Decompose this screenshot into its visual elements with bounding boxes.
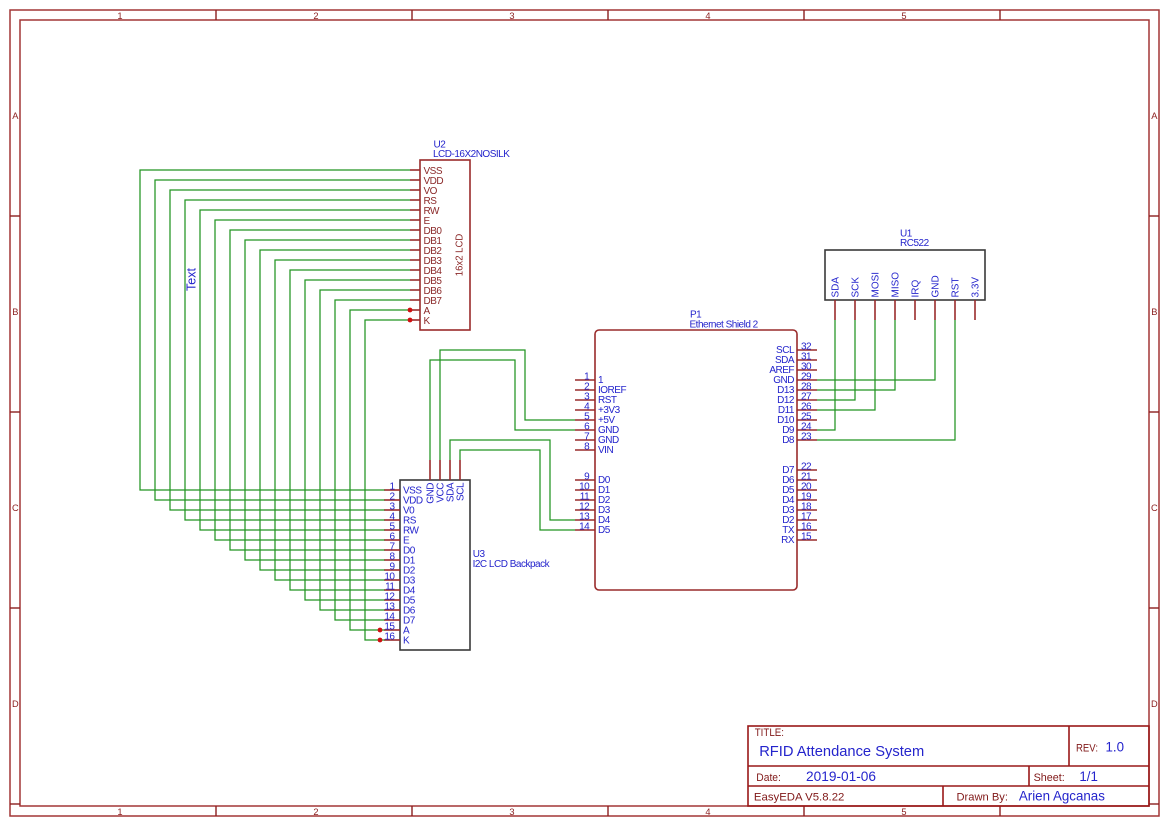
svg-text:C: C [1151,503,1158,513]
svg-text:4: 4 [705,807,710,817]
svg-text:Date:: Date: [756,772,781,784]
svg-text:1.0: 1.0 [1106,739,1125,755]
svg-text:23: 23 [801,432,812,443]
wire U1 SDA to P1 pin24 D9 [817,320,835,430]
svg-text:15: 15 [801,532,812,543]
component U3 I2C LCD Backpack [384,460,470,650]
svg-text:SCK: SCK [851,277,862,298]
junction dot U2 pin K [408,318,413,323]
svg-text:16: 16 [384,632,395,643]
svg-text:4: 4 [705,11,710,21]
wire U2 pin 4 to U3 pin 4 [185,200,410,520]
wire U2 pin 11 to U3 pin 11 [290,270,410,590]
wire U1 GND to P1 pin29 GND [817,320,935,380]
svg-text:2: 2 [313,807,318,817]
svg-text:B: B [12,307,18,317]
svg-text:RX: RX [781,535,795,546]
svg-text:3: 3 [509,11,514,21]
wire U1 MOSI to P1 pin26 D11 [817,320,875,410]
wire U2 pin 14 to U3 pin 14 [335,300,410,620]
svg-text:IRQ: IRQ [911,280,922,298]
svg-text:1: 1 [117,11,122,21]
wire U1 RST to P1 pin23 D8 [817,320,955,440]
svg-text:C: C [12,503,19,513]
svg-text:A: A [1151,111,1158,121]
svg-text:K: K [424,316,431,327]
wire U2 pin 5 to U3 pin 5 [200,210,410,530]
svg-text:2019-01-06: 2019-01-06 [806,768,876,784]
wire U2 pin 1 to U3 pin 1 [140,170,410,490]
svg-text:SDA: SDA [831,277,842,298]
svg-text:5: 5 [901,807,906,817]
component P1 Ethernet Shield 2 [575,330,817,590]
svg-text:B: B [1151,307,1157,317]
wire U1 SCK to P1 pin27 D12 [817,320,855,400]
wire U2 pin 7 to U3 pin 7 [230,230,410,550]
svg-text:D: D [1151,699,1158,709]
svg-text:REV:: REV: [1076,743,1098,755]
svg-text:A: A [12,111,19,121]
svg-text:Sheet:: Sheet: [1034,772,1065,784]
junction dot U2 pin A [408,308,413,313]
svg-text:8: 8 [584,442,590,453]
svg-text:5: 5 [901,11,906,21]
wire U2 pin 13 to U3 pin 13 [320,290,410,610]
svg-text:RST: RST [951,278,962,298]
svg-text:Drawn By:: Drawn By: [957,791,1009,803]
svg-text:D5: D5 [598,525,611,536]
svg-text:16x2 LCD: 16x2 LCD [454,234,465,277]
svg-text:GND: GND [931,275,942,297]
svg-text:SCL: SCL [456,482,467,501]
wire U2 pin 9 to U3 pin 9 [260,250,410,570]
component U1 RC522 [825,250,985,320]
wire U3 GND to P1 pin6 GND [430,360,575,460]
wire U2 pin 2 to U3 pin 2 [155,180,410,500]
wire U2 pin 12 to U3 pin 12 [305,280,410,600]
svg-text:Text: Text [184,268,198,291]
svg-text:VIN: VIN [598,445,613,456]
junction dot U3 pin 16 K [378,638,383,643]
svg-text:P1: P1 [690,309,702,320]
wire U2 pin 16 to U3 pin 16 [365,320,410,640]
wire U3 SCL to P1 pin14 D5 [460,450,575,530]
junction dot U3 pin 15 A [378,628,383,633]
svg-text:D: D [12,699,19,709]
svg-text:Arien Agcanas: Arien Agcanas [1019,787,1105,803]
svg-text:MISO: MISO [891,272,902,298]
wire U3 SDA to P1 pin13 D4 [450,440,575,520]
svg-text:3: 3 [509,807,514,817]
svg-text:I2C LCD Backpack: I2C LCD Backpack [473,559,551,570]
wire U2 pin 6 to U3 pin 6 [215,220,410,540]
svg-text:14: 14 [579,522,590,533]
svg-text:RC522: RC522 [900,238,930,249]
component U2 LCD-16X2NOSILK [410,160,470,330]
svg-text:RFID Attendance System: RFID Attendance System [759,743,924,760]
svg-text:MOSI: MOSI [871,272,882,298]
svg-text:K: K [403,636,410,647]
svg-text:3.3V: 3.3V [971,277,982,298]
svg-text:2: 2 [313,11,318,21]
svg-text:LCD-16X2NOSILK: LCD-16X2NOSILK [433,149,510,160]
svg-text:Ethernet Shield 2: Ethernet Shield 2 [690,320,759,331]
svg-text:TITLE:: TITLE: [755,727,784,739]
svg-text:1/1: 1/1 [1079,768,1098,784]
wire U2 pin 8 to U3 pin 8 [245,240,410,560]
wire U2 pin 3 to U3 pin 3 [170,190,410,510]
title block [748,726,1149,806]
svg-text:EasyEDA V5.8.22: EasyEDA V5.8.22 [754,791,845,803]
svg-text:1: 1 [117,807,122,817]
wire U2 pin 10 to U3 pin 10 [275,260,410,580]
wire U1 MISO to P1 pin28 D13 [817,320,895,390]
svg-text:D8: D8 [782,435,795,446]
wire U3 VCC to P1 pin5 +5V [440,350,575,460]
wire U2 pin 15 to U3 pin 15 [350,310,410,630]
